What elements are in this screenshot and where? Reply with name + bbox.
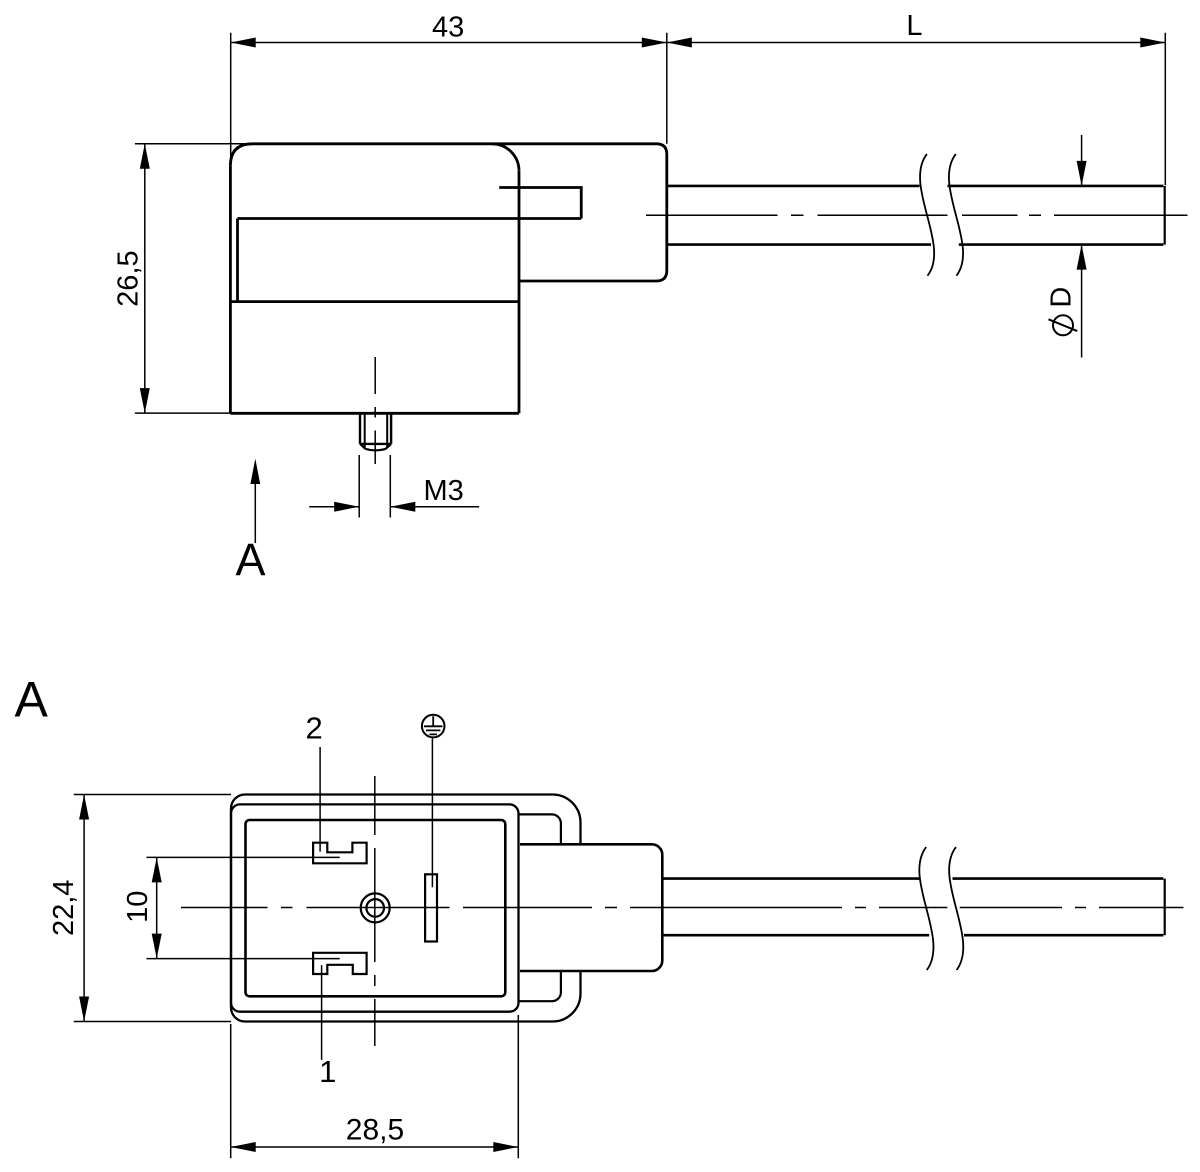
body bottom edge (230, 412, 519, 415)
earth pin slot (425, 874, 437, 941)
diameter symbol (1049, 315, 1078, 335)
stud centerline (374, 357, 376, 464)
cable top line (view A) (662, 877, 1163, 880)
dim line M3 (309, 506, 479, 508)
arrowhead L right (1140, 38, 1165, 48)
earth symbol strokes (424, 716, 443, 734)
face plate (246, 820, 506, 996)
body right edge (518, 171, 521, 413)
M3 stud chamfer (360, 444, 391, 450)
dim line 43 (231, 42, 667, 44)
cable break curve 2 (949, 154, 963, 276)
window left edge (236, 219, 239, 302)
leader earth (431, 738, 433, 887)
break curve 1 (view A) (919, 847, 933, 970)
cable break curve 1 (920, 154, 934, 276)
body mid parting line (230, 300, 519, 303)
cable bottom line (667, 243, 1164, 246)
arrowhead 26,5 bottom (140, 388, 150, 413)
view arrow A line (254, 484, 256, 543)
dim 43 extension left (230, 33, 232, 166)
svg-text:1: 1 (319, 1054, 336, 1089)
M3 stud outer (360, 413, 391, 444)
cable end (view A) (1164, 879, 1166, 936)
arrowhead 22,4 top (79, 795, 89, 820)
arrowhead 43 right (642, 38, 667, 48)
svg-text:43: 43 (432, 11, 464, 43)
dim L extension right (1164, 33, 1166, 185)
svg-text:28,5: 28,5 (346, 1114, 404, 1147)
svg-text:22,4: 22,4 (48, 880, 80, 936)
dim D lines (1081, 135, 1083, 358)
svg-text:26,5: 26,5 (112, 250, 144, 306)
M3 stud thread lines (365, 413, 388, 447)
svg-text:2: 2 (305, 710, 322, 745)
svg-text:D: D (1046, 287, 1078, 308)
arrowhead 28,5 left (231, 1142, 256, 1152)
center screw hole inner (366, 899, 384, 917)
connector body outline (230, 144, 666, 281)
arrowhead D bottom (1077, 245, 1087, 270)
body shoulder fillet (492, 144, 519, 171)
cable bottom line (view A) (662, 934, 1163, 937)
svg-text:M3: M3 (424, 475, 464, 507)
arrowhead 26,5 top (140, 144, 150, 169)
dim 22,4 extensions (74, 795, 231, 1022)
dim 26,5 extensions (135, 144, 254, 413)
cable centerline (646, 214, 1188, 216)
dim line 10 (156, 857, 158, 958)
svg-text:L: L (906, 10, 922, 42)
leader pin 1 (321, 965, 323, 1060)
window lower edge (238, 217, 582, 220)
dim line 28,5 (231, 1146, 519, 1148)
break curve 2 (view A) (949, 847, 963, 970)
arrowhead 10 bottom (152, 934, 162, 959)
arrowhead 10 top (152, 857, 162, 882)
arrowhead 43 left (231, 38, 256, 48)
pin 2 contact (313, 843, 367, 864)
dim 43/L shared extension (666, 33, 668, 144)
pin 1 contact (313, 953, 367, 974)
arrowhead 28,5 right (493, 1142, 518, 1152)
svg-text:A: A (235, 534, 265, 585)
arrowhead D top (1077, 161, 1087, 186)
housing outer rim R1 (231, 795, 581, 1022)
vertical centerline (view A) (374, 776, 376, 1046)
center screw hole outer (361, 893, 390, 922)
arrowhead 22,4 bottom (79, 997, 89, 1022)
cable-entry tab (499, 188, 581, 219)
arrowhead L left (667, 38, 692, 48)
leader pin 2 (319, 747, 321, 852)
dim line 26,5 (144, 144, 146, 413)
cable end (1164, 186, 1166, 245)
housing base R2 (231, 804, 519, 1011)
arrowhead view A (250, 459, 260, 484)
body left edge (229, 166, 232, 413)
arrowhead M3 left (334, 502, 359, 512)
earth symbol circle (422, 715, 445, 738)
horizontal centerline (view A) (181, 907, 1184, 909)
svg-text:10: 10 (122, 891, 154, 923)
dim 10 extensions (147, 857, 340, 958)
dim 28,5 extensions (231, 1015, 519, 1158)
dim line L (667, 42, 1166, 44)
gland collar R3 (520, 814, 561, 1001)
arrowhead M3 right (390, 502, 415, 512)
cable gland (view A) (520, 844, 662, 971)
cable top line (667, 185, 1164, 188)
dim line 22,4 (83, 795, 85, 1022)
dim M3 extensions (359, 455, 390, 518)
svg-text:A: A (15, 672, 49, 728)
